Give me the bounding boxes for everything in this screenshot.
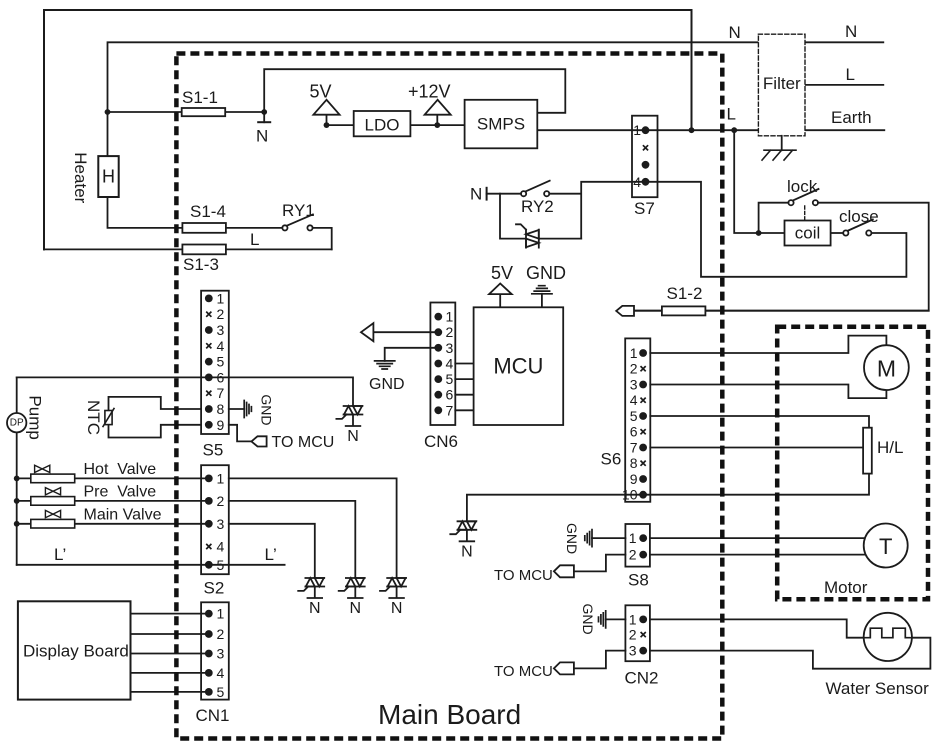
- svg-text:N: N: [470, 185, 482, 204]
- switch RY1: [282, 214, 313, 230]
- wire S2 pin1 to triac: [229, 478, 397, 578]
- wire CN2 pin1 to GND: [606, 618, 626, 620]
- svg-text:DP: DP: [10, 418, 24, 429]
- svg-text:RY1: RY1: [282, 201, 315, 220]
- pin x-mark S2 pin4: [206, 544, 211, 549]
- node N tick RY2: [486, 188, 488, 200]
- connector S2 body: [201, 465, 229, 574]
- svg-text:2: 2: [217, 306, 225, 322]
- svg-text:S5: S5: [203, 441, 224, 460]
- svg-text:6: 6: [446, 387, 454, 403]
- svg-text:H: H: [102, 167, 115, 187]
- svg-text:3: 3: [629, 643, 637, 659]
- pin dots S7: [642, 126, 650, 185]
- wire pump rail: [16, 377, 18, 564]
- svg-text:2: 2: [446, 324, 454, 340]
- svg-text:Pump: Pump: [26, 395, 45, 439]
- wire S6 pin10 row to triac and H/L: [467, 474, 869, 522]
- node N terminal tick: [258, 121, 270, 123]
- fuse S1-3: [182, 245, 226, 255]
- svg-text:6: 6: [217, 369, 225, 385]
- water sensor circle: [864, 613, 912, 661]
- wire CN6 pin3 to GND: [385, 348, 439, 361]
- wire S2 pin3 to triac: [229, 524, 315, 578]
- svg-text:5V: 5V: [310, 82, 332, 102]
- valve coil main: [31, 519, 75, 528]
- svg-text:Display Board: Display Board: [23, 642, 129, 661]
- pump DP circle: [7, 413, 26, 432]
- svg-text:3: 3: [630, 377, 638, 393]
- svg-text:LDO: LDO: [365, 116, 400, 135]
- svg-text:close: close: [839, 207, 879, 226]
- power arrow 5V (MCU): [489, 284, 512, 308]
- svg-text:Earth: Earth: [831, 108, 872, 127]
- pin dots CN6: [434, 313, 442, 414]
- svg-text:SMPS: SMPS: [477, 115, 525, 134]
- svg-text:2: 2: [629, 627, 637, 643]
- svg-text:5: 5: [217, 684, 225, 700]
- tacho T circle: [864, 524, 908, 568]
- pin dots CN2: [639, 616, 647, 655]
- thermistor NTC: [103, 409, 114, 427]
- wire S6 pin3 to motor M: [650, 385, 886, 399]
- svg-text:L: L: [846, 65, 855, 84]
- svg-text:7: 7: [630, 440, 638, 456]
- ground GND (CN2): [599, 611, 606, 628]
- wire S8 pin2 to TO MCU: [574, 555, 626, 572]
- connector CN6 body: [430, 303, 455, 426]
- tag to-mcu S8: [554, 565, 574, 577]
- regulator LDO box: [354, 111, 411, 136]
- pin dots S5: [205, 295, 213, 429]
- svg-text:GND: GND: [369, 376, 405, 393]
- ground GND (CN6): [375, 361, 395, 369]
- svg-text:Water Sensor: Water Sensor: [826, 679, 930, 698]
- svg-text:lock: lock: [787, 177, 818, 196]
- svg-text:TO MCU: TO MCU: [494, 567, 553, 584]
- svg-text:2: 2: [630, 361, 638, 377]
- svg-text:L: L: [727, 105, 736, 124]
- switch lock: [788, 189, 818, 205]
- valve symbol pre: [45, 488, 60, 495]
- svg-text:1: 1: [629, 530, 637, 546]
- connector CN1 body: [201, 602, 229, 699]
- svg-text:3: 3: [217, 516, 225, 532]
- svg-text:Pre Valve: Pre Valve: [84, 484, 157, 501]
- svg-text:S1-1: S1-1: [182, 88, 218, 107]
- svg-text:S1-2: S1-2: [667, 284, 703, 303]
- svg-text:3: 3: [217, 646, 225, 662]
- svg-text:Filter: Filter: [763, 74, 801, 93]
- connector S8 body: [625, 524, 650, 567]
- pin dots S2: [205, 475, 213, 569]
- svg-text:4: 4: [630, 392, 638, 408]
- wire display board to CN1: [131, 614, 209, 692]
- ground GND (S8): [585, 530, 592, 547]
- svg-text:N: N: [347, 428, 359, 445]
- wire RY1 output: [313, 228, 332, 250]
- svg-text:N: N: [729, 23, 741, 42]
- svg-text:+12V: +12V: [408, 82, 451, 102]
- wire L' row: [17, 564, 285, 566]
- motor M circle: [864, 345, 909, 390]
- svg-text:S7: S7: [634, 199, 655, 218]
- power supply SMPS box: [465, 100, 538, 149]
- svg-text:5: 5: [446, 371, 454, 387]
- svg-text:CN1: CN1: [196, 706, 230, 725]
- pin dots S8: [639, 534, 647, 558]
- wire S5 pin8 to GND: [229, 408, 244, 410]
- wire 5V stem: [326, 115, 328, 125]
- wire S1-3 L row: [44, 248, 332, 250]
- wire +12V stem: [436, 115, 438, 125]
- svg-text:S6: S6: [601, 450, 622, 469]
- svg-text:1: 1: [630, 345, 638, 361]
- wire S8 pin1 to T: [650, 537, 870, 539]
- svg-text:5V: 5V: [491, 263, 513, 283]
- svg-text:6: 6: [630, 424, 638, 440]
- tag to-mcu S5: [251, 436, 266, 446]
- wire S6 pin1 to motor M: [650, 336, 886, 353]
- svg-text:1: 1: [629, 611, 637, 627]
- wire S8 pin2 to T: [650, 554, 870, 556]
- svg-text:3: 3: [446, 340, 454, 356]
- relay coil box: [785, 221, 831, 246]
- wire RY2 triac parallel branch: [500, 194, 581, 239]
- svg-text:Motor: Motor: [824, 578, 868, 597]
- svg-text:MCU: MCU: [493, 354, 543, 379]
- wire N top rail: [108, 42, 759, 112]
- wire CN2 pin3 to TO MCU: [574, 651, 626, 669]
- wire pre valve row: [17, 500, 209, 502]
- svg-text:8: 8: [217, 401, 225, 417]
- switch close: [843, 220, 873, 236]
- power arrow +12V: [425, 100, 451, 115]
- svg-text:L’: L’: [265, 545, 277, 564]
- svg-text:N: N: [845, 22, 857, 41]
- svg-text:1: 1: [633, 122, 641, 138]
- wire LDO row: [327, 124, 465, 126]
- svg-text:L’: L’: [54, 545, 66, 564]
- wire coil to close switch: [831, 232, 844, 234]
- triac TR-N5: [336, 406, 362, 426]
- fuse S1-1: [182, 108, 226, 116]
- wire coil branch from L line: [734, 130, 784, 233]
- filter earth ground: [762, 136, 796, 160]
- main board dashed border: [176, 54, 722, 739]
- svg-text:CN2: CN2: [625, 669, 659, 688]
- wire CN6 pin2 arrow: [373, 331, 438, 333]
- motor dashed border: [777, 327, 928, 600]
- svg-text:TO MCU: TO MCU: [494, 663, 553, 680]
- valve symbol hot: [35, 465, 50, 472]
- wire S5 pin6 row: [17, 377, 353, 406]
- triac TR-N3: [380, 578, 406, 598]
- svg-text:GND: GND: [580, 604, 596, 635]
- svg-text:N: N: [461, 543, 473, 560]
- svg-text:N: N: [309, 600, 321, 617]
- wire S1-1 row: [108, 111, 265, 113]
- wire filter N output: [805, 41, 883, 43]
- wire CN2 pin1 to water sensor: [650, 619, 866, 637]
- svg-text:S2: S2: [204, 579, 225, 598]
- wire NTC loop: [109, 397, 202, 438]
- svg-text:Hot Valve: Hot Valve: [84, 461, 157, 478]
- svg-text:GND: GND: [526, 263, 566, 283]
- wire S8 pin1 to GND: [592, 537, 625, 539]
- fuse S1-4: [182, 223, 226, 233]
- connector S5 body: [201, 291, 229, 434]
- svg-text:TO MCU: TO MCU: [272, 434, 335, 451]
- svg-text:4: 4: [633, 174, 641, 190]
- svg-text:9: 9: [630, 471, 638, 487]
- svg-text:2: 2: [629, 547, 637, 563]
- linkage lock-coil dashed: [804, 206, 806, 221]
- connector S7 body: [632, 116, 658, 198]
- svg-text:T: T: [879, 534, 892, 559]
- pin dots CN1: [205, 610, 213, 696]
- ground GND (MCU): [532, 286, 552, 308]
- svg-text:N: N: [350, 600, 362, 617]
- svg-text:NTC: NTC: [84, 400, 103, 435]
- svg-text:5: 5: [630, 408, 638, 424]
- svg-text:coil: coil: [795, 224, 821, 243]
- svg-text:S8: S8: [628, 571, 649, 590]
- svg-text:RY2: RY2: [521, 197, 554, 216]
- svg-text:5: 5: [217, 557, 225, 573]
- pin x-marks S6: [641, 366, 646, 466]
- wire CN6 pins 4-7 to MCU: [455, 364, 473, 411]
- mcu U1 box: [474, 307, 564, 425]
- svg-text:1: 1: [446, 309, 454, 325]
- svg-text:N: N: [256, 127, 268, 146]
- connector CN2 body: [625, 605, 650, 661]
- wire RY2 output to S7 pin4: [549, 182, 645, 239]
- svg-text:GND: GND: [564, 523, 580, 554]
- resistor H/L: [863, 428, 872, 474]
- svg-text:1: 1: [217, 290, 225, 306]
- svg-text:4: 4: [217, 338, 225, 354]
- svg-text:10: 10: [622, 487, 638, 503]
- svg-text:Main Valve: Main Valve: [84, 507, 162, 524]
- wire L line SMPS to Filter through S7 pin1: [537, 129, 758, 131]
- wire main valve row: [17, 523, 209, 525]
- heater element H box: [98, 156, 118, 197]
- svg-text:4: 4: [217, 665, 225, 681]
- wire CN2 pin3 loop to water sensor: [650, 638, 931, 669]
- svg-text:Heater: Heater: [71, 152, 90, 203]
- wire S6 pin7 to H/L: [650, 447, 863, 449]
- wire heater branch: [108, 112, 283, 228]
- connector S6 body: [625, 338, 650, 501]
- svg-text:2: 2: [217, 493, 225, 509]
- ground GND (S5 pin8): [244, 401, 251, 418]
- svg-text:4: 4: [217, 539, 225, 555]
- wire S6 pin5 to H/L: [650, 416, 869, 428]
- svg-text:2: 2: [217, 626, 225, 642]
- valve coil hot: [31, 474, 75, 483]
- wire lock branch: [759, 203, 789, 233]
- svg-text:4: 4: [446, 356, 454, 372]
- svg-text:9: 9: [217, 417, 225, 433]
- switch RY2: [521, 181, 550, 197]
- wire SMPS feedback loop to N: [264, 69, 565, 122]
- wire filter L output: [805, 84, 883, 86]
- triac TR-N1: [298, 578, 324, 598]
- valve coil pre: [31, 497, 75, 506]
- filter box dashed: [758, 34, 805, 136]
- wire S5 pin9 to TO MCU: [229, 425, 252, 442]
- svg-text:Main Board: Main Board: [378, 699, 521, 730]
- triac TR-N4: [450, 521, 476, 541]
- svg-text:7: 7: [446, 402, 454, 418]
- svg-text:L: L: [250, 230, 259, 249]
- svg-text:5: 5: [217, 354, 225, 370]
- wire S2 pin2 to triac: [229, 501, 355, 578]
- svg-text:7: 7: [217, 385, 225, 401]
- tag to-mcu S1-2: [616, 306, 634, 316]
- svg-text:H/L: H/L: [877, 438, 903, 457]
- water sensor waveform: [864, 628, 912, 638]
- pin x-mark S7 pin2: [643, 145, 648, 150]
- fuse S1-2: [662, 306, 706, 315]
- pin x-marks S5: [206, 312, 211, 396]
- triac TR-RY2: [516, 224, 539, 247]
- wire S1-2 row: [634, 310, 929, 312]
- arrowhead CN6 pin2: [361, 323, 373, 341]
- wire lock output loop to S1-2: [634, 203, 929, 311]
- svg-text:CN6: CN6: [424, 432, 458, 451]
- wire hot valve row: [17, 477, 209, 479]
- svg-text:M: M: [877, 356, 896, 382]
- power arrow 5V (LDO): [313, 100, 339, 115]
- svg-text:S1-3: S1-3: [183, 255, 219, 274]
- pin x-mark CN2 pin2: [641, 632, 646, 637]
- wire L border loop: [44, 10, 692, 249]
- valve symbol main: [45, 510, 60, 517]
- tag to-mcu CN2: [554, 662, 574, 674]
- triac TR-N2: [339, 578, 365, 598]
- wire S7 pin4 to close loop: [646, 182, 907, 277]
- svg-text:8: 8: [630, 455, 638, 471]
- svg-text:GND: GND: [258, 394, 274, 425]
- wire filter Earth output: [805, 129, 884, 131]
- pin dots S6: [639, 349, 647, 499]
- wire RY2 N input: [487, 193, 521, 195]
- svg-text:S1-4: S1-4: [190, 202, 226, 221]
- display board box: [18, 601, 131, 699]
- svg-text:3: 3: [217, 322, 225, 338]
- svg-text:1: 1: [217, 606, 225, 622]
- svg-text:N: N: [391, 600, 403, 617]
- svg-text:1: 1: [217, 470, 225, 486]
